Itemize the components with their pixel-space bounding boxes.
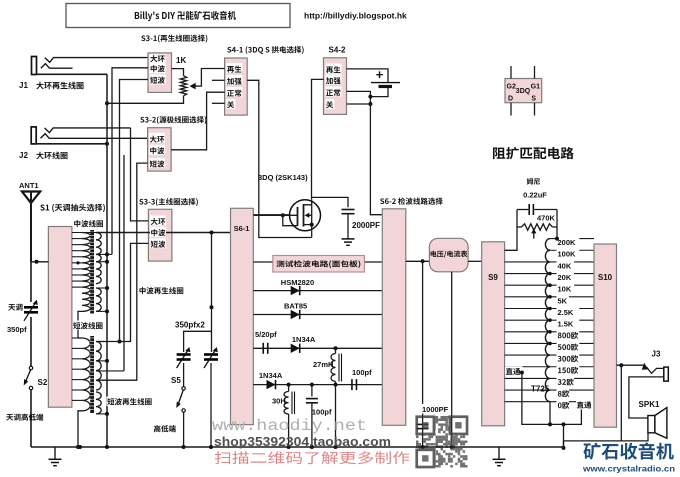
wire cap bracket bbox=[184, 331, 212, 352]
wire mw stub 261 bbox=[96, 260, 109, 264]
label 470K bbox=[536, 213, 558, 223]
wire C1 to S5 bbox=[183, 363, 185, 387]
capacitor 2000PF bbox=[312, 197, 355, 245]
label J3 bbox=[652, 350, 661, 359]
wire swr stub 361 bbox=[96, 359, 109, 363]
svg-text:100pf: 100pf bbox=[352, 368, 372, 377]
label S6-1 bbox=[234, 224, 250, 233]
selector S6-1 box bbox=[231, 208, 254, 424]
wire S4-1 zhengchang to S3-2 zhongbo bbox=[171, 92, 225, 150]
wire bus v3 bbox=[118, 80, 149, 344]
wire S6-1 gate row bbox=[253, 214, 289, 216]
wire row3 bbox=[253, 346, 382, 350]
wire ground bus bbox=[31, 446, 564, 448]
wire tank branch bbox=[210, 233, 214, 332]
wire S6-2 to meter bbox=[406, 259, 430, 263]
svg-text:3DQ (2SK143): 3DQ (2SK143) bbox=[258, 173, 308, 182]
svg-text:G1: G1 bbox=[531, 84, 540, 91]
svg-text:http://billydiy.blogspot.hk: http://billydiy.blogspot.hk bbox=[304, 11, 407, 21]
svg-text:www.crystalradio.cn: www.crystalradio.cn bbox=[582, 464, 675, 474]
wire swr stub 370 bbox=[96, 370, 124, 372]
switch S2 bbox=[24, 366, 33, 389]
label 2000PF bbox=[352, 221, 380, 230]
wire meter to S9 bbox=[468, 260, 482, 262]
wire T725 rows bbox=[505, 239, 594, 402]
label 天调 bbox=[8, 304, 22, 311]
svg-text:G2: G2 bbox=[507, 84, 516, 91]
selector S3-3 box bbox=[148, 209, 172, 261]
wire battery minus to S6-2 bbox=[370, 97, 382, 215]
wire T725 to bus bbox=[562, 424, 566, 450]
label 1N34A row4 bbox=[259, 371, 283, 380]
variable capacitor C2 350pf bbox=[204, 347, 218, 368]
connector J3 bbox=[640, 363, 668, 381]
selector S9 box bbox=[482, 242, 505, 426]
wire pot loop right bbox=[556, 210, 558, 239]
node bus dots bbox=[78, 445, 213, 449]
wire zr stub top bbox=[96, 286, 109, 290]
label 中波再生线圈 bbox=[138, 286, 183, 296]
inductor L4 core bbox=[90, 336, 95, 413]
svg-text:S2: S2 bbox=[38, 378, 48, 387]
wire swr stub top bbox=[96, 341, 104, 343]
svg-text:shop35392304.taobao.com: shop35392304.taobao.com bbox=[214, 435, 391, 449]
wire antenna down bbox=[30, 262, 32, 302]
svg-text:2.5K: 2.5K bbox=[558, 308, 574, 317]
ground G2 bbox=[493, 447, 506, 466]
label SPK1 bbox=[639, 400, 660, 409]
wire 27mH chain to bus bbox=[334, 385, 338, 449]
svg-text:J1: J1 bbox=[19, 81, 28, 90]
svg-text:1N34A: 1N34A bbox=[259, 371, 283, 380]
svg-text:0.22uF: 0.22uF bbox=[523, 191, 547, 200]
label 中波线圈 bbox=[74, 220, 103, 227]
wire bus v6a J2 tip to S3-3 bbox=[131, 128, 149, 221]
wire S4-2 jiaqiang to drain bbox=[312, 79, 324, 199]
label S10 bbox=[598, 273, 613, 282]
svg-text:5K: 5K bbox=[558, 296, 568, 305]
svg-text:30H: 30H bbox=[272, 397, 286, 406]
selector S10 box bbox=[594, 244, 617, 427]
svg-text:S9: S9 bbox=[488, 273, 498, 282]
label 姆尼 bbox=[527, 178, 540, 185]
svg-text:S10: S10 bbox=[598, 273, 613, 282]
wire J3 to SPK bbox=[629, 377, 648, 418]
box 测试检波电路 bbox=[273, 256, 365, 273]
svg-text:SPK1: SPK1 bbox=[639, 400, 660, 409]
diode D4 1N34A bbox=[267, 380, 276, 389]
svg-text:J2: J2 bbox=[19, 151, 28, 160]
inductor L6 短波再生线圈 winding bbox=[96, 392, 101, 414]
node T725 tap dots bbox=[548, 272, 552, 346]
wire C2 down bbox=[210, 363, 212, 447]
wire meter down bbox=[450, 272, 454, 449]
svg-text:BAT85: BAT85 bbox=[284, 302, 307, 311]
svg-text:www.haodiy.net: www.haodiy.net bbox=[212, 417, 367, 435]
svg-text:S5: S5 bbox=[171, 376, 181, 385]
ic 3DQ pinout bbox=[505, 66, 542, 116]
label 直通 right bbox=[576, 400, 594, 410]
wire pot loop left bbox=[505, 210, 517, 251]
svg-text:2000PF: 2000PF bbox=[352, 221, 380, 230]
wire SPK return bbox=[564, 365, 649, 448]
wire bus v2 bbox=[112, 68, 148, 255]
label 高低端 bbox=[154, 425, 176, 432]
connector J1 bbox=[32, 57, 149, 75]
label 30H bbox=[272, 397, 286, 406]
wire swz stub bot bbox=[96, 412, 109, 416]
label 短波再生线圈 bbox=[107, 397, 152, 407]
selector S6-2 box bbox=[382, 209, 406, 425]
wire bypass bbox=[522, 373, 582, 427]
label 1N34A row3 bbox=[292, 335, 316, 344]
label S4-2 bbox=[329, 46, 346, 55]
svg-text:470K: 470K bbox=[537, 214, 556, 223]
svg-text:1.5K: 1.5K bbox=[558, 320, 574, 329]
wire row1 bbox=[253, 290, 382, 292]
wire S4-2 zhengchang bbox=[347, 91, 373, 98]
label 阻扩匹配电路 bbox=[493, 147, 574, 159]
battery B1 bbox=[347, 67, 401, 97]
wire bus v4 bbox=[96, 163, 148, 380]
selector S1 box bbox=[48, 227, 72, 408]
wire S10 out bbox=[617, 363, 644, 367]
label S3-3 zhongbo overlay bbox=[150, 227, 166, 237]
inductor L4 短波线圈 left winding bbox=[82, 338, 90, 411]
wire tank common bbox=[96, 231, 231, 235]
label 1K bbox=[176, 56, 186, 65]
diode D2 BAT85 bbox=[291, 310, 300, 319]
svg-text:J3: J3 bbox=[652, 350, 661, 359]
label 0.22uF bbox=[523, 191, 547, 200]
label S6-2 bbox=[380, 198, 443, 205]
capacitor C5 100pf bottom bbox=[306, 385, 318, 449]
wire row4 bbox=[253, 383, 382, 387]
svg-text:1N34A: 1N34A bbox=[292, 335, 316, 344]
wire mw stub 254 bbox=[96, 252, 112, 256]
svg-text:100pf: 100pf bbox=[312, 408, 332, 417]
resistor R1 1K pot bbox=[105, 69, 225, 106]
label 天调高低端 bbox=[6, 414, 43, 421]
wire antenna to S1 bbox=[31, 260, 48, 264]
wire bus v6b S3-3 duanbo bbox=[96, 243, 148, 341]
switch S5 bbox=[176, 387, 185, 413]
svg-text:350pf: 350pf bbox=[7, 325, 27, 334]
wire row2 bbox=[253, 314, 382, 316]
inductor L5 短波 right winding bbox=[96, 342, 101, 391]
ground G1 bbox=[49, 447, 62, 466]
label S4-1 rows bbox=[226, 63, 242, 109]
inductor L1 中波线圈 left winding bbox=[82, 233, 90, 312]
watermark scan bbox=[215, 451, 410, 464]
svg-text:10K: 10K bbox=[558, 285, 572, 294]
wire S4-1 jiaqiang to source bbox=[247, 80, 312, 237]
svg-text:40K: 40K bbox=[558, 261, 572, 270]
wire S5 down bbox=[183, 412, 185, 447]
label S1 bbox=[40, 204, 105, 212]
diode D1 HSM2820 bbox=[291, 286, 300, 295]
wire S4-1 jiaqiang stub bbox=[212, 79, 225, 81]
svg-text:HSM2820: HSM2820 bbox=[281, 278, 314, 287]
label 直通 left bbox=[505, 366, 524, 376]
label S9 bbox=[488, 273, 498, 282]
inductor L3 中波再生线圈 winding bbox=[96, 288, 101, 311]
wire row0 test bbox=[253, 261, 382, 263]
label S4-1 bbox=[227, 46, 303, 54]
label 27mH bbox=[313, 360, 333, 369]
variable capacitor 天调 350pf bbox=[24, 300, 38, 321]
node 200K tap bbox=[555, 237, 559, 241]
url text bbox=[304, 11, 407, 21]
label 短波线圈 bbox=[73, 321, 103, 330]
svg-text:1K: 1K bbox=[176, 56, 186, 65]
svg-text:S: S bbox=[531, 96, 536, 103]
label T725 bbox=[531, 385, 550, 394]
svg-text:S6-1: S6-1 bbox=[234, 224, 250, 233]
svg-text:3DQ: 3DQ bbox=[516, 88, 531, 95]
title box bbox=[66, 4, 290, 28]
inductor L7 27mH bbox=[331, 348, 342, 384]
selector S3-2 box bbox=[148, 128, 172, 171]
capacitor C6 1000PF bbox=[417, 261, 429, 449]
label S3-2 bbox=[140, 116, 206, 124]
label 350pfx2 bbox=[175, 321, 205, 330]
variable capacitor C1 350pf bbox=[177, 347, 191, 368]
wire cap to S2 bbox=[30, 317, 32, 366]
svg-text:S4-2: S4-2 bbox=[329, 46, 346, 55]
label S2 bbox=[38, 378, 48, 387]
selector S3-1 box bbox=[148, 53, 172, 93]
qr code watermark bbox=[416, 416, 468, 468]
svg-text:100K: 100K bbox=[558, 250, 577, 259]
inductor L1 core bbox=[90, 230, 95, 314]
svg-text:ANT1: ANT1 bbox=[19, 181, 39, 190]
label 100pf right bbox=[352, 368, 372, 377]
antenna ANT1 bbox=[22, 192, 40, 262]
inductor L2 中波 right winding bbox=[96, 233, 101, 284]
label S3-3 bbox=[139, 198, 198, 206]
label S3-2 rows bbox=[149, 133, 165, 168]
svg-text:5/20pf: 5/20pf bbox=[255, 330, 277, 339]
svg-text:20K: 20K bbox=[558, 273, 572, 282]
capacitor C7 0.22uF bbox=[517, 204, 557, 215]
label S3-1 rows bbox=[150, 54, 166, 84]
label S3-3 rows bbox=[150, 216, 166, 249]
wire S1 taps mw bbox=[72, 233, 96, 288]
label BAT85 bbox=[284, 302, 307, 311]
wire sw bottom to bus bbox=[76, 411, 82, 449]
label 1000PF bbox=[421, 404, 451, 414]
svg-text:1000PF: 1000PF bbox=[422, 405, 449, 414]
label 5/20pf bbox=[255, 330, 277, 339]
label J2 bbox=[19, 151, 67, 160]
wire zr stub bot bbox=[96, 309, 109, 313]
diode D3 1N34A bbox=[291, 344, 300, 353]
wire S1 taps sw bbox=[72, 338, 82, 400]
label Q1 bbox=[258, 173, 308, 182]
svg-text:D: D bbox=[508, 96, 513, 103]
selector S4-2 box bbox=[324, 58, 347, 115]
svg-text:350pfx2: 350pfx2 bbox=[175, 321, 205, 330]
resistor R2 470K pot bbox=[517, 224, 557, 239]
meter box 电压/电流表 bbox=[429, 238, 468, 271]
label 350pf bbox=[7, 325, 27, 334]
inductor L8 30H bbox=[284, 385, 294, 449]
label S4-2 rows bbox=[325, 64, 341, 110]
label T725 taps bbox=[557, 238, 580, 410]
wire bus v5 bbox=[123, 155, 125, 371]
watermark taobao bbox=[214, 435, 391, 449]
capacitor C3 5/20pf bbox=[263, 343, 268, 354]
speaker SPK1 bbox=[648, 408, 667, 439]
label S3-1 bbox=[141, 35, 207, 43]
logo 矿石收音机 bbox=[582, 443, 675, 474]
label HSM2820 bbox=[281, 278, 314, 287]
svg-text:T725: T725 bbox=[531, 385, 550, 394]
wire S2 down bbox=[30, 390, 32, 447]
svg-text:200K: 200K bbox=[558, 238, 577, 247]
selector S4-1 box bbox=[225, 58, 248, 115]
wire S4-1 guan stub bbox=[212, 102, 225, 104]
wire bus v1 bbox=[106, 74, 108, 447]
transistor Q1 3DQ (2SK143) bbox=[253, 199, 320, 237]
wire coil link bbox=[78, 311, 82, 338]
watermark haodiy bbox=[212, 417, 367, 435]
label J1 bbox=[19, 81, 83, 90]
wire S4-2 guan bbox=[347, 102, 373, 106]
inductor T725 winding bbox=[545, 239, 550, 425]
capacitor C4 100pf bbox=[352, 379, 357, 390]
label ANT1 bbox=[19, 181, 39, 190]
label S5 bbox=[171, 376, 181, 385]
svg-text:+: + bbox=[376, 67, 384, 82]
svg-text:27mH: 27mH bbox=[313, 360, 333, 369]
label 100pf bottom bbox=[312, 408, 332, 417]
connector J2 bbox=[31, 127, 147, 146]
